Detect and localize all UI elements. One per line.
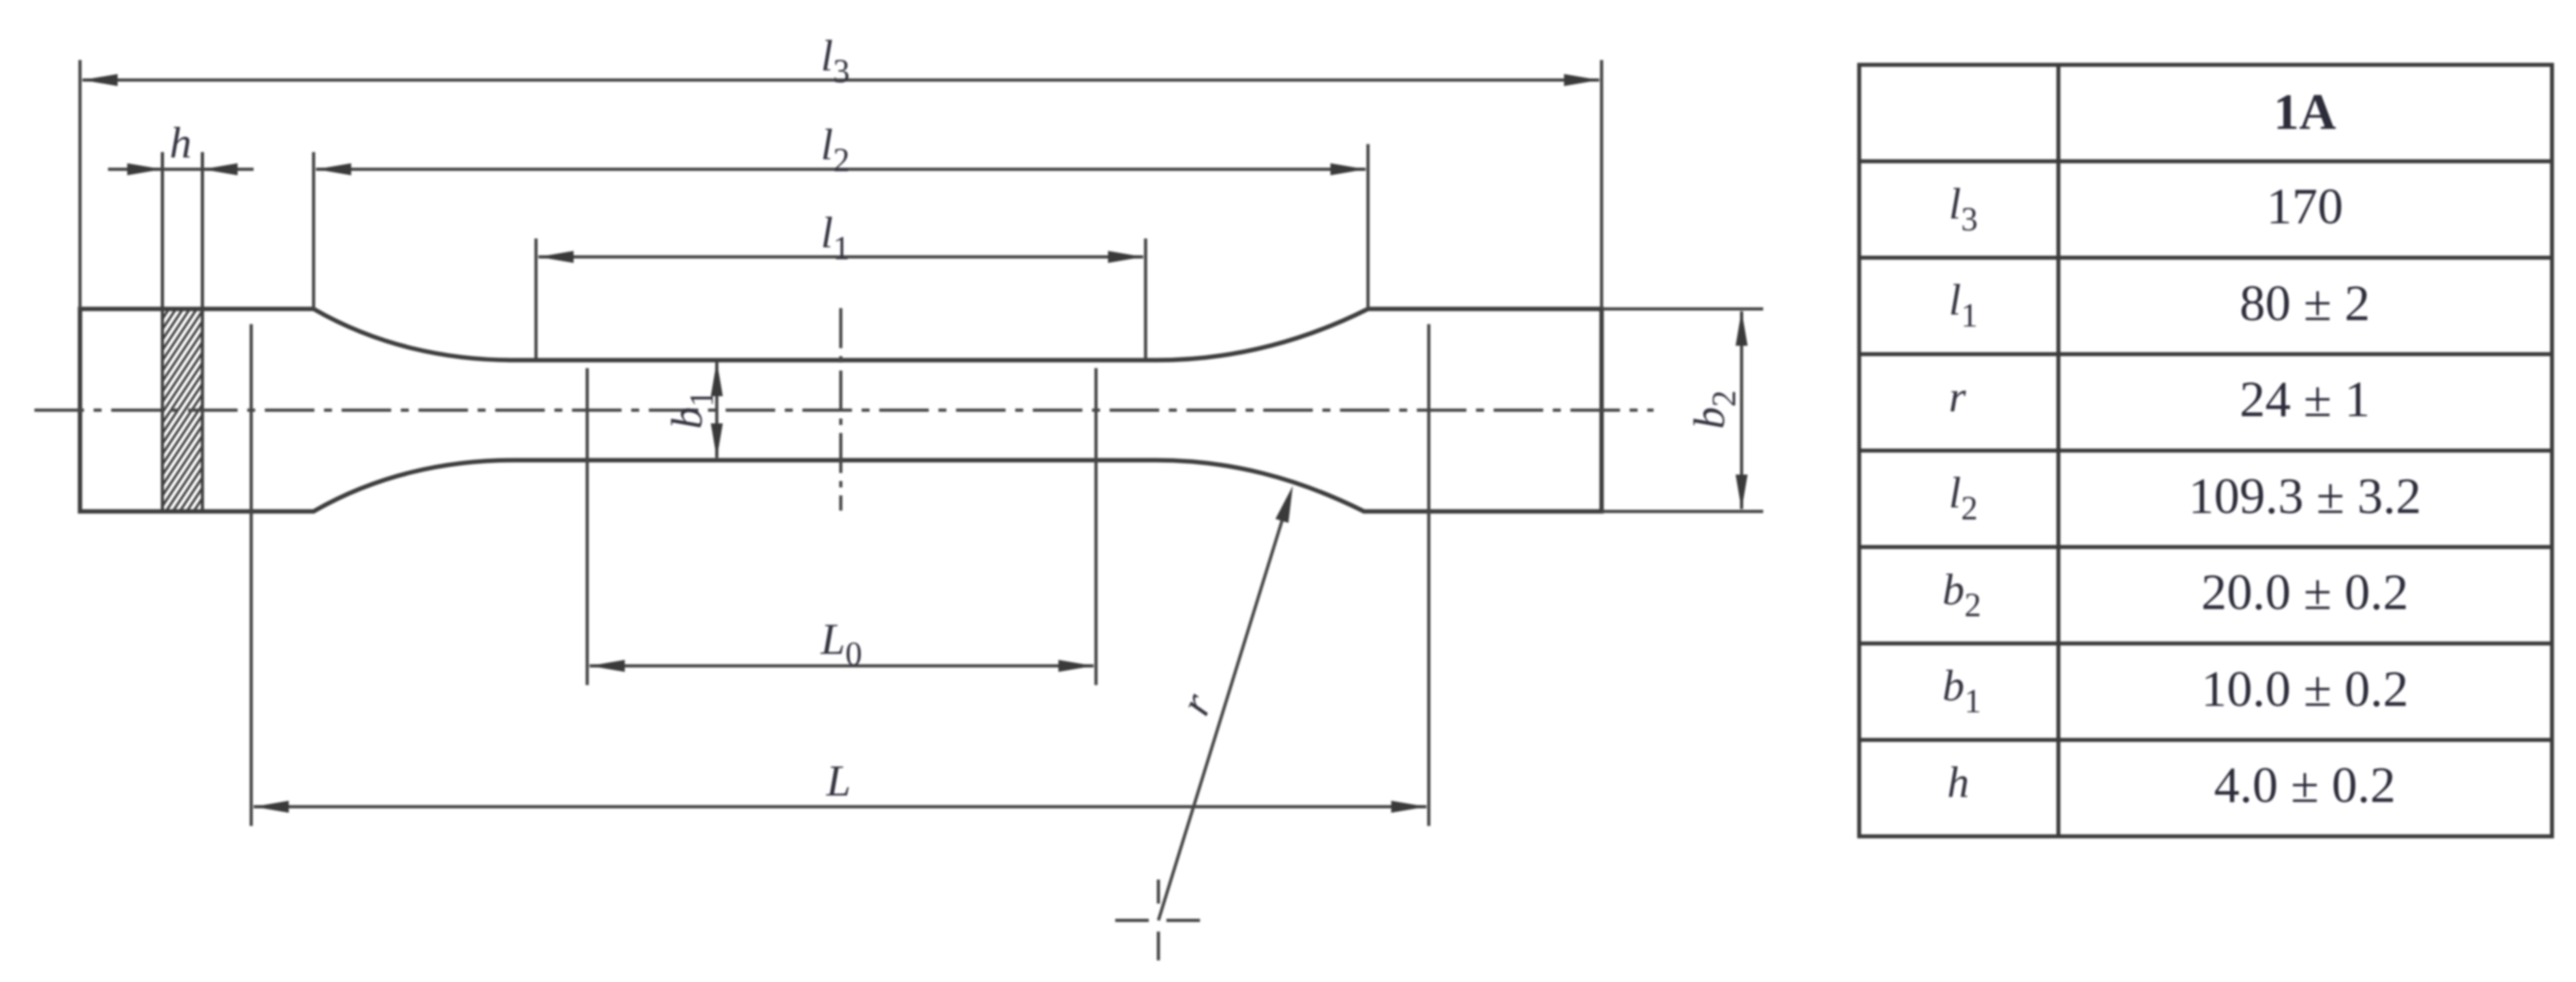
l3 extension left	[78, 60, 82, 309]
b2 extension top	[1602, 307, 1763, 311]
dimension L	[254, 801, 1426, 813]
svg-text:24 ± 1: 24 ± 1	[2239, 371, 2370, 427]
l2 extension left	[312, 152, 315, 309]
leader r	[1158, 486, 1293, 920]
dimension b2	[1736, 311, 1748, 510]
dimension L0	[590, 660, 1094, 672]
svg-text:h: h	[1947, 758, 1970, 807]
center tick	[839, 308, 842, 511]
l1 extension left	[534, 238, 538, 359]
hatch band diagonals	[152, 215, 218, 615]
l3 extension right	[1600, 60, 1603, 309]
dimension l1	[538, 251, 1143, 263]
center cross mark	[1115, 880, 1200, 960]
svg-text:4.0 ± 0.2: 4.0 ± 0.2	[2214, 756, 2395, 813]
L extension right	[1427, 324, 1430, 826]
specimen outline	[80, 309, 1602, 511]
svg-text:80 ± 2: 80 ± 2	[2239, 275, 2370, 331]
table grid	[1859, 65, 2552, 836]
svg-text:r: r	[1949, 372, 1966, 421]
dimension l3	[82, 74, 1599, 86]
dimension b1	[711, 361, 723, 459]
svg-text:h: h	[170, 118, 192, 167]
svg-text:109.3 ± 3.2: 109.3 ± 3.2	[2188, 467, 2421, 524]
dimension h arrows	[108, 163, 254, 175]
b2 extension bottom	[1602, 510, 1763, 513]
L0 extension right	[1094, 368, 1098, 685]
hatch band boundary lines	[162, 152, 202, 511]
L0 extension left	[586, 368, 589, 685]
svg-text:170: 170	[2266, 178, 2343, 234]
svg-text:10.0 ± 0.2: 10.0 ± 0.2	[2201, 660, 2408, 717]
svg-text:1A: 1A	[2274, 83, 2336, 140]
L extension left	[250, 324, 253, 826]
svg-text:L: L	[826, 756, 851, 805]
dimension l2	[316, 163, 1366, 175]
centerline	[34, 409, 1654, 412]
svg-text:20.0 ± 0.2: 20.0 ± 0.2	[2201, 563, 2408, 620]
l1 extension right	[1144, 238, 1147, 359]
l2 extension right	[1366, 144, 1370, 309]
